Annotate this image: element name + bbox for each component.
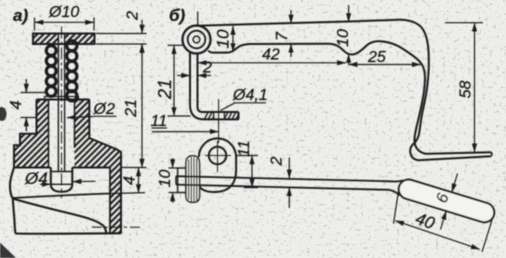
spring hook outer curve [398,20,491,160]
svg-text:10: 10 [157,170,174,188]
dim O4,1 leader [221,103,236,111]
cap outline [33,34,95,45]
dim 6 arrows [452,174,458,193]
dim 4 left: extension ticks [21,92,47,94]
boss right wall hatch [75,100,90,139]
dim 4 right [138,168,140,194]
lug tab outline [199,138,236,192]
hook foot end cap [491,152,492,156]
cavity ceiling extension for dim 4 [110,192,145,195]
dim 7 arrows [290,10,292,24]
spring seat washer [45,97,79,100]
dim 40 line [395,221,479,250]
column left edge [109,168,111,234]
dim 40 extension lines [394,191,399,224]
pivot hub middle circle [188,31,206,49]
svg-text:2: 2 [269,156,286,166]
svg-text:2: 2 [125,11,142,21]
svg-text:б): б) [169,6,186,25]
svg-text:4: 4 [122,176,139,185]
rod bottom line [176,185,400,196]
flange hole edges [213,112,215,119]
svg-text:Ø10: Ø10 [48,4,79,21]
svg-text:21: 21 [155,79,175,100]
stub line above pivot [197,12,199,26]
valve dome [51,168,73,192]
svg-text:2: 2 [202,60,212,77]
hole centerline upper [218,99,220,143]
centerline of valve stem [61,27,63,199]
cap hatched right part [65,34,95,45]
cap hatched left part [33,34,58,45]
svg-text:11: 11 [236,140,253,157]
lug hole centerline vertical [217,141,219,172]
dim O2 underline and leader [94,115,117,117]
pivot hole [193,36,200,43]
boss left wall hatch [37,100,49,134]
valve stem [57,34,59,172]
svg-text:Ø4: Ø4 [24,169,48,188]
dim 4 left arrows [25,79,27,93]
cavity top line [13,194,110,199]
dim O10 line with arrows [35,21,95,23]
lower band left hatch [14,145,49,167]
dim 11 vertical ticks [236,155,258,157]
cap right extension lines [96,33,147,35]
dim 58 top extension [445,22,483,24]
dim 10 left ticks [169,167,179,169]
dim 21 extension ticks [168,44,184,46]
cavity sweeping curve [13,199,107,234]
right chamfer mass hatch [75,138,122,168]
spring hook inner curve [380,41,491,154]
rivet body [186,156,200,203]
dim 10 left arrows [172,158,174,168]
svg-text:Ø2: Ø2 [93,101,115,118]
svg-text:21: 21 [123,99,140,118]
dim 58 line [474,23,476,153]
svg-text:10: 10 [335,29,352,47]
scan artifact left edge [0,107,7,121]
lever arm top line [197,20,398,26]
dim 2 (cap thickness) arrows [141,20,143,34]
lug hole centerline horizontal [205,155,231,157]
spring right coils [67,41,77,101]
dim 10 top line [232,26,234,52]
bore walls [48,100,50,168]
dim 25 line [349,64,421,66]
boss and body outline [14,100,121,234]
pivot hub outer circle [183,26,211,54]
dim 11 horizontal line [152,131,219,133]
dome seat line [51,183,73,185]
pedal pad stadium [399,180,494,223]
dim 42 line [198,62,346,64]
dim O4,1 underline [234,102,267,104]
flange left hatch [20,134,49,145]
svg-text:25: 25 [367,49,386,66]
body bottom face extension [121,167,147,169]
svg-text:58: 58 [458,81,475,99]
dim 21 right line [141,44,143,168]
casting left lower edge [10,168,16,234]
dim 11 vertical line [251,156,253,188]
svg-text:Ø4,1: Ø4,1 [232,87,268,104]
dim O4 arrows to dome [40,183,51,185]
dim 10 wave arrows [348,5,350,22]
dome top edge [51,171,73,173]
svg-text:10: 10 [214,29,233,48]
scan artifact bottom-left corner [0,243,16,258]
right wall column hatch [110,168,121,234]
svg-text:4: 4 [8,100,25,109]
casting bottom edge [16,232,122,235]
dim 21 line [173,45,175,116]
svg-text:42: 42 [262,47,280,64]
bracket strip outer edge and elbow [190,52,239,119]
body bottom face line [14,167,110,169]
spring left coils [46,46,56,97]
svg-text:а): а) [13,6,28,25]
lug hole [209,147,226,164]
svg-text:7: 7 [274,31,291,41]
flange end cap [238,112,240,119]
bracket strip inner edge [198,55,239,113]
washer plate at rod end [178,168,186,193]
flange hatch left block [204,112,214,119]
rod top line [176,176,403,181]
flange hatch right block [224,112,238,119]
lever arm bottom line with wave [209,41,381,54]
dim O10 extension lines [34,18,36,31]
rod left end cap [175,176,177,184]
dim 2 strip arrows [177,75,190,77]
bottom hole centerline [92,226,140,228]
rivet knurl lines [189,157,197,202]
dim 2 rod arrows [288,158,290,179]
